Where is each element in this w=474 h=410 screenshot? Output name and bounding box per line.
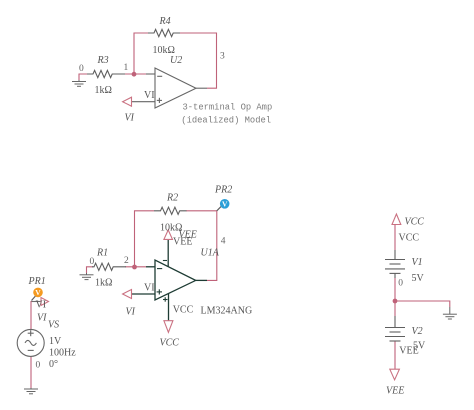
- svg-text:V: V: [222, 200, 228, 209]
- svg-text:VCC: VCC: [173, 305, 194, 316]
- svg-text:3-terminal Op Amp: 3-terminal Op Amp: [183, 103, 273, 113]
- svg-text:1V: 1V: [49, 336, 62, 347]
- svg-text:2: 2: [124, 256, 129, 266]
- svg-text:VEE: VEE: [173, 237, 192, 248]
- svg-text:VEE: VEE: [399, 346, 418, 357]
- svg-text:R2: R2: [166, 193, 178, 204]
- svg-text:VCC: VCC: [399, 233, 420, 244]
- svg-text:1kΩ: 1kΩ: [95, 278, 112, 289]
- svg-text:0: 0: [398, 279, 403, 289]
- svg-text:VI: VI: [36, 300, 47, 311]
- svg-text:1kΩ: 1kΩ: [95, 85, 112, 96]
- svg-text:VI: VI: [144, 90, 155, 101]
- svg-text:VCC: VCC: [405, 217, 425, 228]
- svg-text:0°: 0°: [49, 359, 58, 370]
- svg-text:0: 0: [79, 64, 84, 74]
- svg-text:VI: VI: [144, 283, 155, 294]
- svg-text:R1: R1: [96, 248, 108, 259]
- svg-text:VEE: VEE: [386, 386, 404, 397]
- svg-text:V: V: [35, 288, 41, 297]
- svg-text:V1: V1: [412, 257, 423, 268]
- svg-text:0: 0: [90, 257, 95, 267]
- svg-text:4: 4: [221, 237, 226, 247]
- svg-text:VI: VI: [37, 313, 47, 324]
- svg-text:PR1: PR1: [28, 276, 46, 287]
- svg-text:U1A: U1A: [201, 248, 220, 259]
- svg-text:3: 3: [220, 52, 225, 62]
- svg-text:VS: VS: [48, 320, 59, 331]
- svg-text:R4: R4: [159, 16, 171, 27]
- svg-text:1: 1: [124, 63, 129, 73]
- svg-text:U2: U2: [170, 55, 182, 66]
- svg-text:PR2: PR2: [214, 185, 232, 196]
- svg-text:0: 0: [36, 361, 41, 371]
- svg-text:VI: VI: [125, 113, 135, 124]
- svg-text:VCC: VCC: [160, 338, 180, 349]
- svg-text:VI: VI: [126, 307, 136, 318]
- svg-text:100Hz: 100Hz: [49, 348, 76, 359]
- svg-text:V2: V2: [412, 326, 423, 337]
- svg-text:LM324ANG: LM324ANG: [201, 306, 253, 317]
- svg-text:R3: R3: [97, 55, 109, 66]
- svg-text:5V: 5V: [412, 273, 425, 284]
- svg-text:(idealized) Model: (idealized) Model: [181, 116, 271, 126]
